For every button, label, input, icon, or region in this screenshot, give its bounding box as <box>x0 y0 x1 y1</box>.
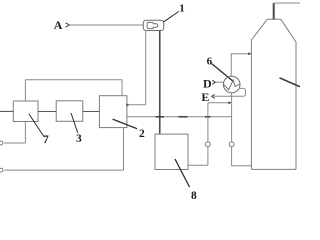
pump 6 inner swirl <box>224 80 240 90</box>
svg-text:A: A <box>54 18 63 32</box>
svg-text:1: 1 <box>179 3 185 15</box>
wire box 7 to box 3 <box>38 111 56 113</box>
node D arrow <box>212 80 215 84</box>
svg-text:8: 8 <box>191 190 197 200</box>
wire box 7 drain left <box>4 142 25 144</box>
stack top line <box>274 2 300 4</box>
wire feed into box 7 (dark) <box>0 110 13 112</box>
wire E pipe from pump right <box>212 88 246 96</box>
svg-text:D: D <box>203 76 212 90</box>
svg-text:3: 3 <box>76 133 82 145</box>
enclosure left wall <box>24 80 26 101</box>
tower right shoulder <box>281 19 296 42</box>
box 2 <box>99 96 127 128</box>
enclosure right wall <box>121 80 123 96</box>
stack riser (thick) <box>273 3 275 19</box>
wire D to pump 6 <box>215 81 223 83</box>
wire box 3 to box 2 <box>83 111 100 113</box>
leader line for 3 <box>71 113 78 133</box>
wire P1 corner horizontal with arrow <box>208 102 229 104</box>
svg-text:E: E <box>201 90 209 104</box>
leader line for 8 <box>175 159 190 187</box>
junction dot at box 2 right <box>126 104 128 106</box>
blower 1 outer body <box>143 20 164 30</box>
valve V2 <box>229 142 234 147</box>
pipe P1 vertical upper <box>207 103 209 142</box>
blower 1 inner detail <box>147 22 158 28</box>
wire pump 6 top riser <box>231 54 249 76</box>
tower bottom <box>251 168 296 170</box>
leader line for 1 <box>163 11 179 22</box>
tower right wall <box>295 42 297 169</box>
pump 6 circle <box>223 76 240 93</box>
wire left leg to box 2 <box>127 104 146 106</box>
wire bottom long line <box>4 169 123 171</box>
leader line for 2 <box>113 119 137 129</box>
pipe P2 vertical from pump <box>231 93 233 142</box>
valve V1 <box>206 142 211 147</box>
enclosure top line <box>25 79 122 81</box>
node A arrow <box>66 23 70 27</box>
wire P2 to tower <box>232 165 252 167</box>
wire bottom line up to box 2 <box>123 128 125 171</box>
wire box 2 right to pipe P2 <box>127 116 232 118</box>
wire blower 1 down-left leg <box>145 31 147 105</box>
pipe cap at left edge upper <box>0 141 3 145</box>
dark dash on wire near crossing 2 <box>205 116 211 118</box>
wire box 7 drain down <box>24 122 26 144</box>
pipe P2 vertical lower <box>231 147 233 166</box>
leader line for 7 <box>29 114 44 136</box>
tower top <box>267 18 281 20</box>
tower diagonal leader <box>280 78 301 87</box>
box 3 <box>56 101 83 122</box>
box 7 <box>13 101 38 122</box>
arrowhead into tower inlet <box>248 52 251 55</box>
arrowhead into P2 <box>229 101 232 104</box>
wire P1 to box 8 <box>188 164 208 166</box>
pipe P1 vertical lower <box>207 147 209 166</box>
wire blower 1 down to box 8 (thick) <box>159 31 161 135</box>
leader line for 6 <box>212 64 233 82</box>
svg-text:6: 6 <box>207 55 213 67</box>
box 8 <box>155 134 188 169</box>
dark dash on wire middle <box>179 116 188 118</box>
wire A to blower 1 <box>69 24 143 26</box>
dark dash on wire near crossing 1 <box>156 116 165 118</box>
pipe cap at left edge lower <box>0 168 3 172</box>
tower body left wall <box>250 40 252 169</box>
svg-text:2: 2 <box>139 128 145 140</box>
tower left shoulder <box>251 19 267 40</box>
svg-text:7: 7 <box>43 134 49 146</box>
node E arrow <box>212 94 215 98</box>
